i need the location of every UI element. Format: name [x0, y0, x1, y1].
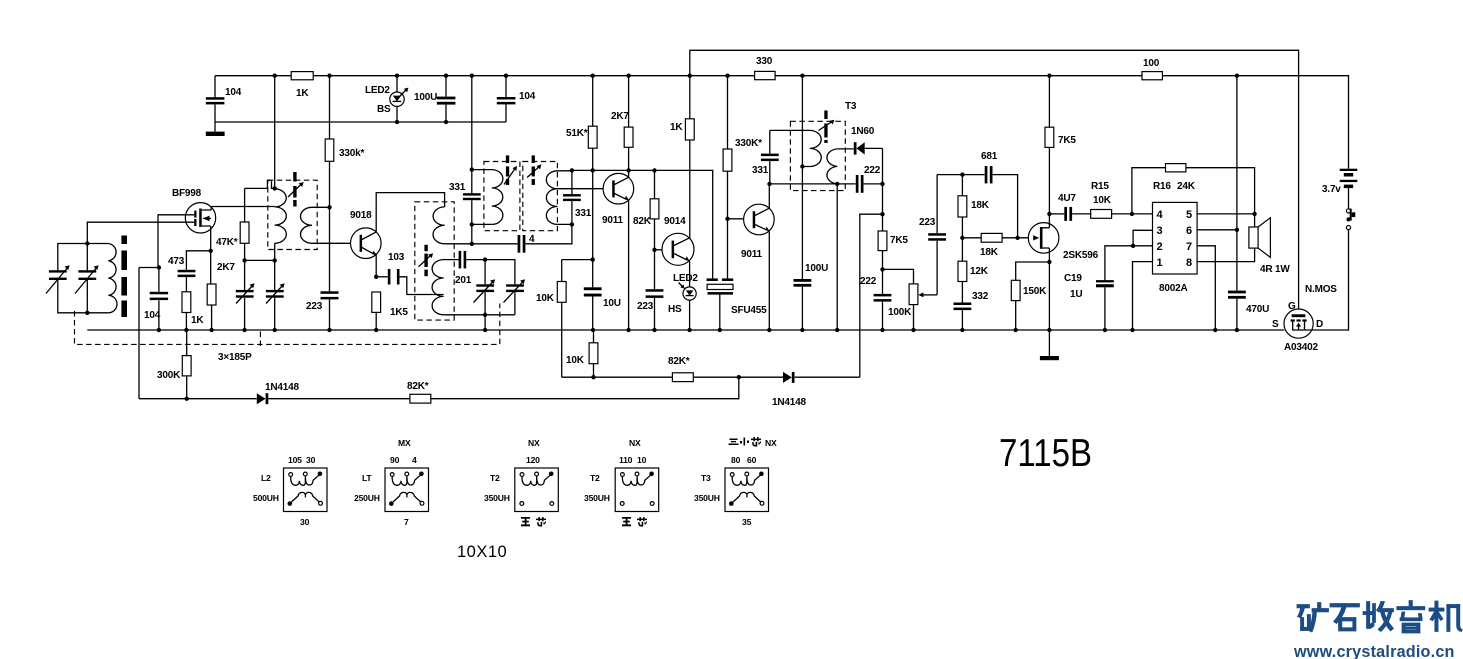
svg-text:104: 104	[225, 87, 242, 98]
svg-text:5: 5	[1186, 209, 1192, 221]
wire AGC node to 300K branch	[139, 267, 159, 269]
legend LT box	[385, 468, 429, 512]
diode D 1N60 detector	[837, 148, 854, 150]
capacitor C473	[178, 270, 196, 273]
T2a core bars and slug arrow	[506, 155, 509, 163]
wire source node to 473 and 2K7	[186, 251, 210, 284]
wire 9011b collector to T3 tank	[768, 184, 770, 208]
svg-text:10K: 10K	[566, 355, 585, 366]
svg-text:104: 104	[519, 91, 536, 102]
svg-text:G: G	[1288, 301, 1296, 312]
legend T3 box	[725, 468, 769, 512]
ferrite rod bars	[121, 236, 127, 245]
wire osc tank bottom	[444, 314, 515, 316]
svg-text:350UH: 350UH	[484, 493, 510, 503]
wire IF node y170.4	[572, 170, 713, 278]
svg-text:10: 10	[637, 455, 647, 465]
resistor 1K in rail	[291, 72, 313, 80]
svg-text:35: 35	[742, 517, 752, 527]
svg-text:100U: 100U	[805, 263, 828, 274]
svg-text:223: 223	[919, 217, 936, 228]
svg-text:T3: T3	[701, 473, 711, 483]
wire pin7 to ground	[1197, 246, 1215, 330]
wire B+ drop x802.4 through 100U	[801, 76, 803, 330]
capacitor C332	[954, 303, 972, 306]
capacitor C4 coupling	[472, 243, 518, 245]
svg-text:7115B: 7115B	[999, 432, 1092, 475]
svg-text:1N4148: 1N4148	[772, 397, 806, 408]
svg-text:350UH: 350UH	[694, 493, 720, 503]
ceramic filter SFU455	[707, 278, 718, 281]
svg-text:A03402: A03402	[1284, 342, 1318, 353]
capacitor C104 second	[505, 76, 507, 122]
resistor 1K5 emitter	[372, 292, 381, 312]
svg-text:18K: 18K	[980, 247, 999, 258]
resistor 2K7 source	[207, 284, 216, 305]
varcap gang section 2	[274, 260, 276, 330]
wire gate2 from antenna tank	[87, 222, 186, 243]
wire BF998 drain to T1 tap	[211, 207, 275, 211]
wire 9018 emitter node	[374, 254, 377, 277]
svg-text:331: 331	[752, 165, 769, 176]
resistor 1K source bias	[182, 292, 191, 313]
capacitor C681 feedback	[985, 166, 988, 183]
resistor 18K upper	[961, 175, 963, 238]
resistor 82K* AGC	[410, 394, 431, 403]
svg-text:4: 4	[1157, 209, 1164, 221]
capacitor C104 top-left	[214, 76, 216, 132]
svg-text:30: 30	[306, 455, 316, 465]
resistor R16 24K feedback loop	[1132, 168, 1255, 214]
wire 9018 collector to osc feedback coil	[376, 193, 444, 232]
wire B+ drop to T1 primary	[274, 76, 276, 189]
svg-text:90: 90	[390, 455, 400, 465]
svg-text:150K: 150K	[1023, 286, 1047, 297]
wire 330k node down to 223 and ground	[329, 207, 331, 330]
svg-text:222: 222	[860, 276, 877, 287]
T1 primary winding	[275, 189, 287, 244]
varcap gang section 4	[485, 260, 515, 315]
legend L2 box	[284, 468, 328, 512]
capacitor C331 T3 tank	[769, 130, 771, 184]
svg-text:S: S	[1272, 319, 1279, 330]
capacitor C19 1U	[1096, 280, 1114, 282]
capacitor C222 detector	[856, 175, 859, 193]
svg-text:9011: 9011	[602, 215, 624, 226]
capacitor C4U7 coupling	[1049, 213, 1064, 215]
wire detector to AGC diodes	[860, 214, 883, 377]
resistor 330 in rail	[755, 71, 776, 79]
wire pin3 jog	[1133, 230, 1152, 246]
svg-text:1: 1	[1157, 257, 1163, 269]
wire 9011b emitter to ground	[768, 231, 770, 330]
svg-text:10X10: 10X10	[457, 543, 507, 561]
capacitor C10U electrolytic	[584, 287, 602, 290]
svg-text:LED2: LED2	[673, 273, 698, 284]
wire pin2 to C19	[1105, 246, 1153, 280]
ground symbol under 104	[206, 132, 225, 136]
transistor Q 9011 first IF	[603, 173, 634, 204]
svg-text:7: 7	[1186, 241, 1192, 253]
svg-text:3×185P: 3×185P	[218, 352, 252, 363]
svg-text:4: 4	[529, 234, 535, 245]
transistor Q A03402 N.MOS switch	[1284, 309, 1313, 338]
volume pot 100K with arrow	[883, 269, 914, 330]
svg-text:NX: NX	[765, 438, 777, 448]
svg-text:8002A: 8002A	[1159, 283, 1187, 294]
svg-text:18K: 18K	[971, 200, 990, 211]
svg-text:250UH: 250UH	[354, 493, 380, 503]
svg-text:D: D	[1316, 319, 1323, 330]
svg-text:7K5: 7K5	[890, 235, 908, 246]
svg-text:331: 331	[575, 208, 592, 219]
transistor Q 2SK596 JFET	[1028, 223, 1059, 254]
svg-text:BF998: BF998	[172, 188, 202, 199]
varcap gang section 1	[244, 260, 246, 330]
capacitor C331 T2a tank	[471, 170, 473, 225]
svg-text:100U: 100U	[414, 92, 437, 103]
svg-text:51K*: 51K*	[566, 128, 588, 139]
transformer T1 dashed box	[268, 180, 317, 249]
speaker 4R 1W	[1249, 227, 1258, 248]
svg-text:9011: 9011	[741, 249, 763, 260]
svg-text:9014: 9014	[664, 216, 686, 227]
svg-text:330: 330	[756, 56, 773, 67]
wire gate1 from AGC node	[158, 215, 186, 268]
svg-text:10K: 10K	[1093, 195, 1112, 206]
svg-text:2: 2	[1157, 241, 1163, 253]
svg-text:MX: MX	[398, 438, 411, 448]
svg-text:C19: C19	[1064, 273, 1082, 284]
svg-text:1K: 1K	[296, 88, 309, 99]
resistor 2K7 9011 load	[628, 76, 630, 171]
wire source to 150K and ground	[1048, 248, 1050, 330]
svg-text:350UH: 350UH	[584, 493, 610, 503]
wire AF input node y174.6	[936, 175, 938, 234]
svg-text:2K7: 2K7	[611, 111, 629, 122]
transistor Q 9011 second IF	[744, 204, 775, 235]
svg-text:82K*: 82K*	[407, 381, 429, 392]
wire pin5 output to speaker	[1197, 214, 1255, 227]
svg-text:331: 331	[449, 182, 466, 193]
legend T2 box second	[615, 468, 659, 512]
svg-text:223: 223	[637, 301, 654, 312]
wire bias node y260.4	[245, 259, 275, 261]
IC U 8002A audio amp	[1153, 202, 1198, 274]
svg-text:12K: 12K	[970, 266, 989, 277]
svg-text:330k*: 330k*	[339, 148, 364, 159]
legend T2 box first	[515, 468, 559, 512]
svg-text:10U: 10U	[603, 298, 621, 309]
svg-text:7: 7	[404, 517, 409, 527]
svg-text:1U: 1U	[1070, 289, 1082, 300]
transformer T2b dashed box	[523, 162, 558, 231]
svg-text:NX: NX	[629, 438, 641, 448]
transistor Q 9018 mixer	[351, 228, 382, 259]
svg-text:110: 110	[619, 455, 633, 465]
svg-text:105: 105	[288, 455, 302, 465]
wire top sense line from 1K node to A03402 gate	[690, 50, 1299, 314]
wire ground rail y330	[87, 329, 1284, 331]
wire T1 secondary to 9018 base	[312, 242, 351, 244]
svg-text:3.7v: 3.7v	[1322, 184, 1341, 195]
svg-text:82K*: 82K*	[668, 356, 690, 367]
wire 9011 collector node y170.4	[628, 170, 630, 177]
svg-text:7K5: 7K5	[1058, 135, 1076, 146]
svg-text:80: 80	[731, 455, 741, 465]
svg-text:222: 222	[864, 165, 881, 176]
resistor 51K*	[592, 76, 594, 171]
svg-text:103: 103	[388, 252, 405, 263]
svg-text:BS: BS	[377, 104, 391, 115]
resistor 1K from sense line	[689, 76, 691, 238]
resistor 100 in rail	[1142, 72, 1162, 80]
svg-text:L2: L2	[261, 473, 271, 483]
svg-text:HS: HS	[668, 304, 682, 315]
T2b core bars and slug arrow	[532, 155, 535, 163]
resistor 10K AGC	[562, 260, 593, 378]
svg-text:3: 3	[1157, 225, 1163, 237]
capacitor C470U	[1228, 291, 1246, 294]
svg-text:T2: T2	[590, 473, 600, 483]
wire T2a bottom to 4pF	[471, 224, 473, 243]
wire T2b tap to 9011 base	[557, 188, 603, 190]
svg-text:6: 6	[1186, 225, 1192, 237]
transformer LT dashed box	[415, 202, 454, 320]
antenna tank left loop with varcap	[58, 244, 88, 313]
svg-text:LT: LT	[362, 473, 372, 483]
capacitor C223 coupling to AF	[936, 241, 938, 295]
transistor Q 9014	[655, 249, 663, 251]
svg-text:300K: 300K	[157, 370, 181, 381]
svg-text:82K: 82K	[633, 216, 652, 227]
svg-text:681: 681	[981, 151, 998, 162]
wire AGC filter drop x592.7	[592, 170, 594, 330]
resistor R15 10K	[1091, 210, 1112, 219]
resistor 300K	[186, 330, 188, 399]
transformer T3 dashed box	[790, 121, 845, 190]
resistor 7K5 detector load	[878, 231, 887, 251]
wire 9011 emitter to ground	[628, 201, 630, 331]
wire detector node y183.9	[770, 183, 883, 185]
resistor 12K	[961, 238, 963, 303]
LT core bars and slug arrow	[424, 245, 427, 251]
resistor 82K 9014 bias	[654, 170, 656, 249]
varcap gang section 3	[484, 260, 486, 315]
T3 primary winding	[810, 130, 822, 166]
capacitor C104 AGC filter	[158, 268, 160, 331]
T3 secondary winding	[827, 149, 837, 184]
ground symbol right	[1048, 330, 1050, 356]
svg-text:100: 100	[1143, 58, 1160, 69]
svg-text:60: 60	[747, 455, 757, 465]
resistor 7K5 drain load	[1048, 76, 1050, 228]
svg-text:24K: 24K	[1177, 181, 1196, 192]
wire 9011b base	[728, 218, 744, 220]
resistor 82K* second	[672, 373, 693, 382]
svg-text:www.crystalradio.cn: www.crystalradio.cn	[1293, 643, 1455, 659]
svg-text:8: 8	[1186, 257, 1192, 269]
svg-text:332: 332	[972, 291, 989, 302]
resistor 18K series to gate	[962, 237, 1028, 239]
transistor Q BF998 dual-gate MOSFET	[185, 203, 215, 233]
svg-text:330K*: 330K*	[735, 138, 762, 149]
capacitor C201	[459, 251, 462, 269]
svg-text:1K: 1K	[670, 122, 683, 133]
svg-text:1N60: 1N60	[851, 126, 875, 137]
diode D 1N4148 second	[783, 372, 792, 383]
svg-text:SFU455: SFU455	[731, 305, 767, 316]
svg-text:500UH: 500UH	[253, 493, 279, 503]
resistor 10K below rail	[593, 330, 595, 377]
capacitor C222 audio	[874, 294, 892, 297]
capacitor C103 osc injection	[376, 276, 388, 278]
wire BF998 source down	[210, 226, 212, 251]
capacitor C100U second electrolytic	[794, 279, 812, 282]
LT feedback winding	[433, 207, 445, 244]
svg-text:R16: R16	[1153, 181, 1171, 192]
svg-text:4R 1W: 4R 1W	[1260, 264, 1290, 275]
LED2 BS tuning indicator	[396, 76, 398, 122]
svg-text:4U7: 4U7	[1058, 193, 1076, 204]
svg-text:470U: 470U	[1246, 304, 1269, 315]
wire AGC row y377.2	[562, 376, 860, 378]
svg-text:1K: 1K	[191, 315, 204, 326]
gang dashed box 3x185P	[75, 304, 500, 345]
capacitor C331 T2b tank	[571, 171, 573, 225]
svg-text:N.MOS: N.MOS	[1305, 284, 1337, 295]
wire pin6 supply	[1197, 229, 1237, 231]
svg-text:1N4148: 1N4148	[265, 382, 299, 393]
capacitor C100U electrolytic	[445, 76, 447, 122]
capacitor C223 mixer bypass	[321, 291, 339, 294]
svg-text:NX: NX	[528, 438, 540, 448]
wire B+ to T2a tank	[471, 76, 473, 170]
svg-text:2SK596: 2SK596	[1063, 250, 1099, 261]
T1 core bars and slug arrow	[293, 172, 296, 182]
transformer T2a dashed box	[484, 162, 520, 231]
svg-text:120: 120	[526, 455, 540, 465]
capacitor C223	[654, 250, 656, 330]
T3 core bars and slug arrow	[824, 111, 827, 120]
resistor 330k* AGC feed	[329, 76, 331, 208]
svg-text:2K7: 2K7	[217, 262, 235, 273]
varcap CA plates	[49, 270, 67, 272]
logo crystalradio	[1293, 601, 1462, 659]
svg-text:100K: 100K	[888, 307, 912, 318]
wire bypass line y122	[215, 121, 506, 123]
svg-text:9018: 9018	[350, 210, 372, 221]
resistor 150K	[1011, 280, 1020, 300]
svg-text:47K*: 47K*	[216, 237, 238, 248]
svg-text:10K: 10K	[536, 293, 555, 304]
svg-text:223: 223	[306, 301, 323, 312]
svg-text:473: 473	[168, 256, 185, 267]
svg-text:1K5: 1K5	[390, 307, 408, 318]
svg-text:LED2: LED2	[365, 85, 390, 96]
T2a winding	[472, 169, 492, 171]
switch pushbutton	[1348, 188, 1350, 209]
T2b winding with base tap	[546, 171, 557, 225]
LT oscillator winding	[432, 260, 444, 315]
wire B+ rail y75.7	[215, 76, 1349, 169]
battery 3.7v	[1340, 169, 1358, 171]
resistor 330K* 9011b bias	[727, 76, 729, 279]
svg-text:30: 30	[300, 517, 310, 527]
wire pin1 to ground	[1133, 262, 1153, 330]
wire detector output x882.5	[882, 148, 884, 330]
diode D 1N4148 first	[257, 393, 266, 404]
svg-text:201: 201	[455, 275, 472, 286]
resistor 47K* with jog to B+ node	[245, 180, 275, 188]
wire AGC bottom line y398.7	[139, 377, 739, 399]
LED2 HS indicator	[689, 261, 691, 287]
T1 secondary winding	[301, 207, 313, 243]
varcap CB on x87.3	[86, 244, 88, 313]
wire T3 secondary bottom to ground	[836, 184, 838, 330]
antenna coil L1 on ferrite rod	[87, 243, 108, 245]
wire pin8 output	[1197, 248, 1255, 262]
svg-text:4: 4	[412, 455, 417, 465]
svg-text:R15: R15	[1091, 181, 1109, 192]
svg-text:104: 104	[144, 310, 161, 321]
svg-text:T2: T2	[490, 473, 500, 483]
svg-text:T3: T3	[845, 101, 857, 112]
